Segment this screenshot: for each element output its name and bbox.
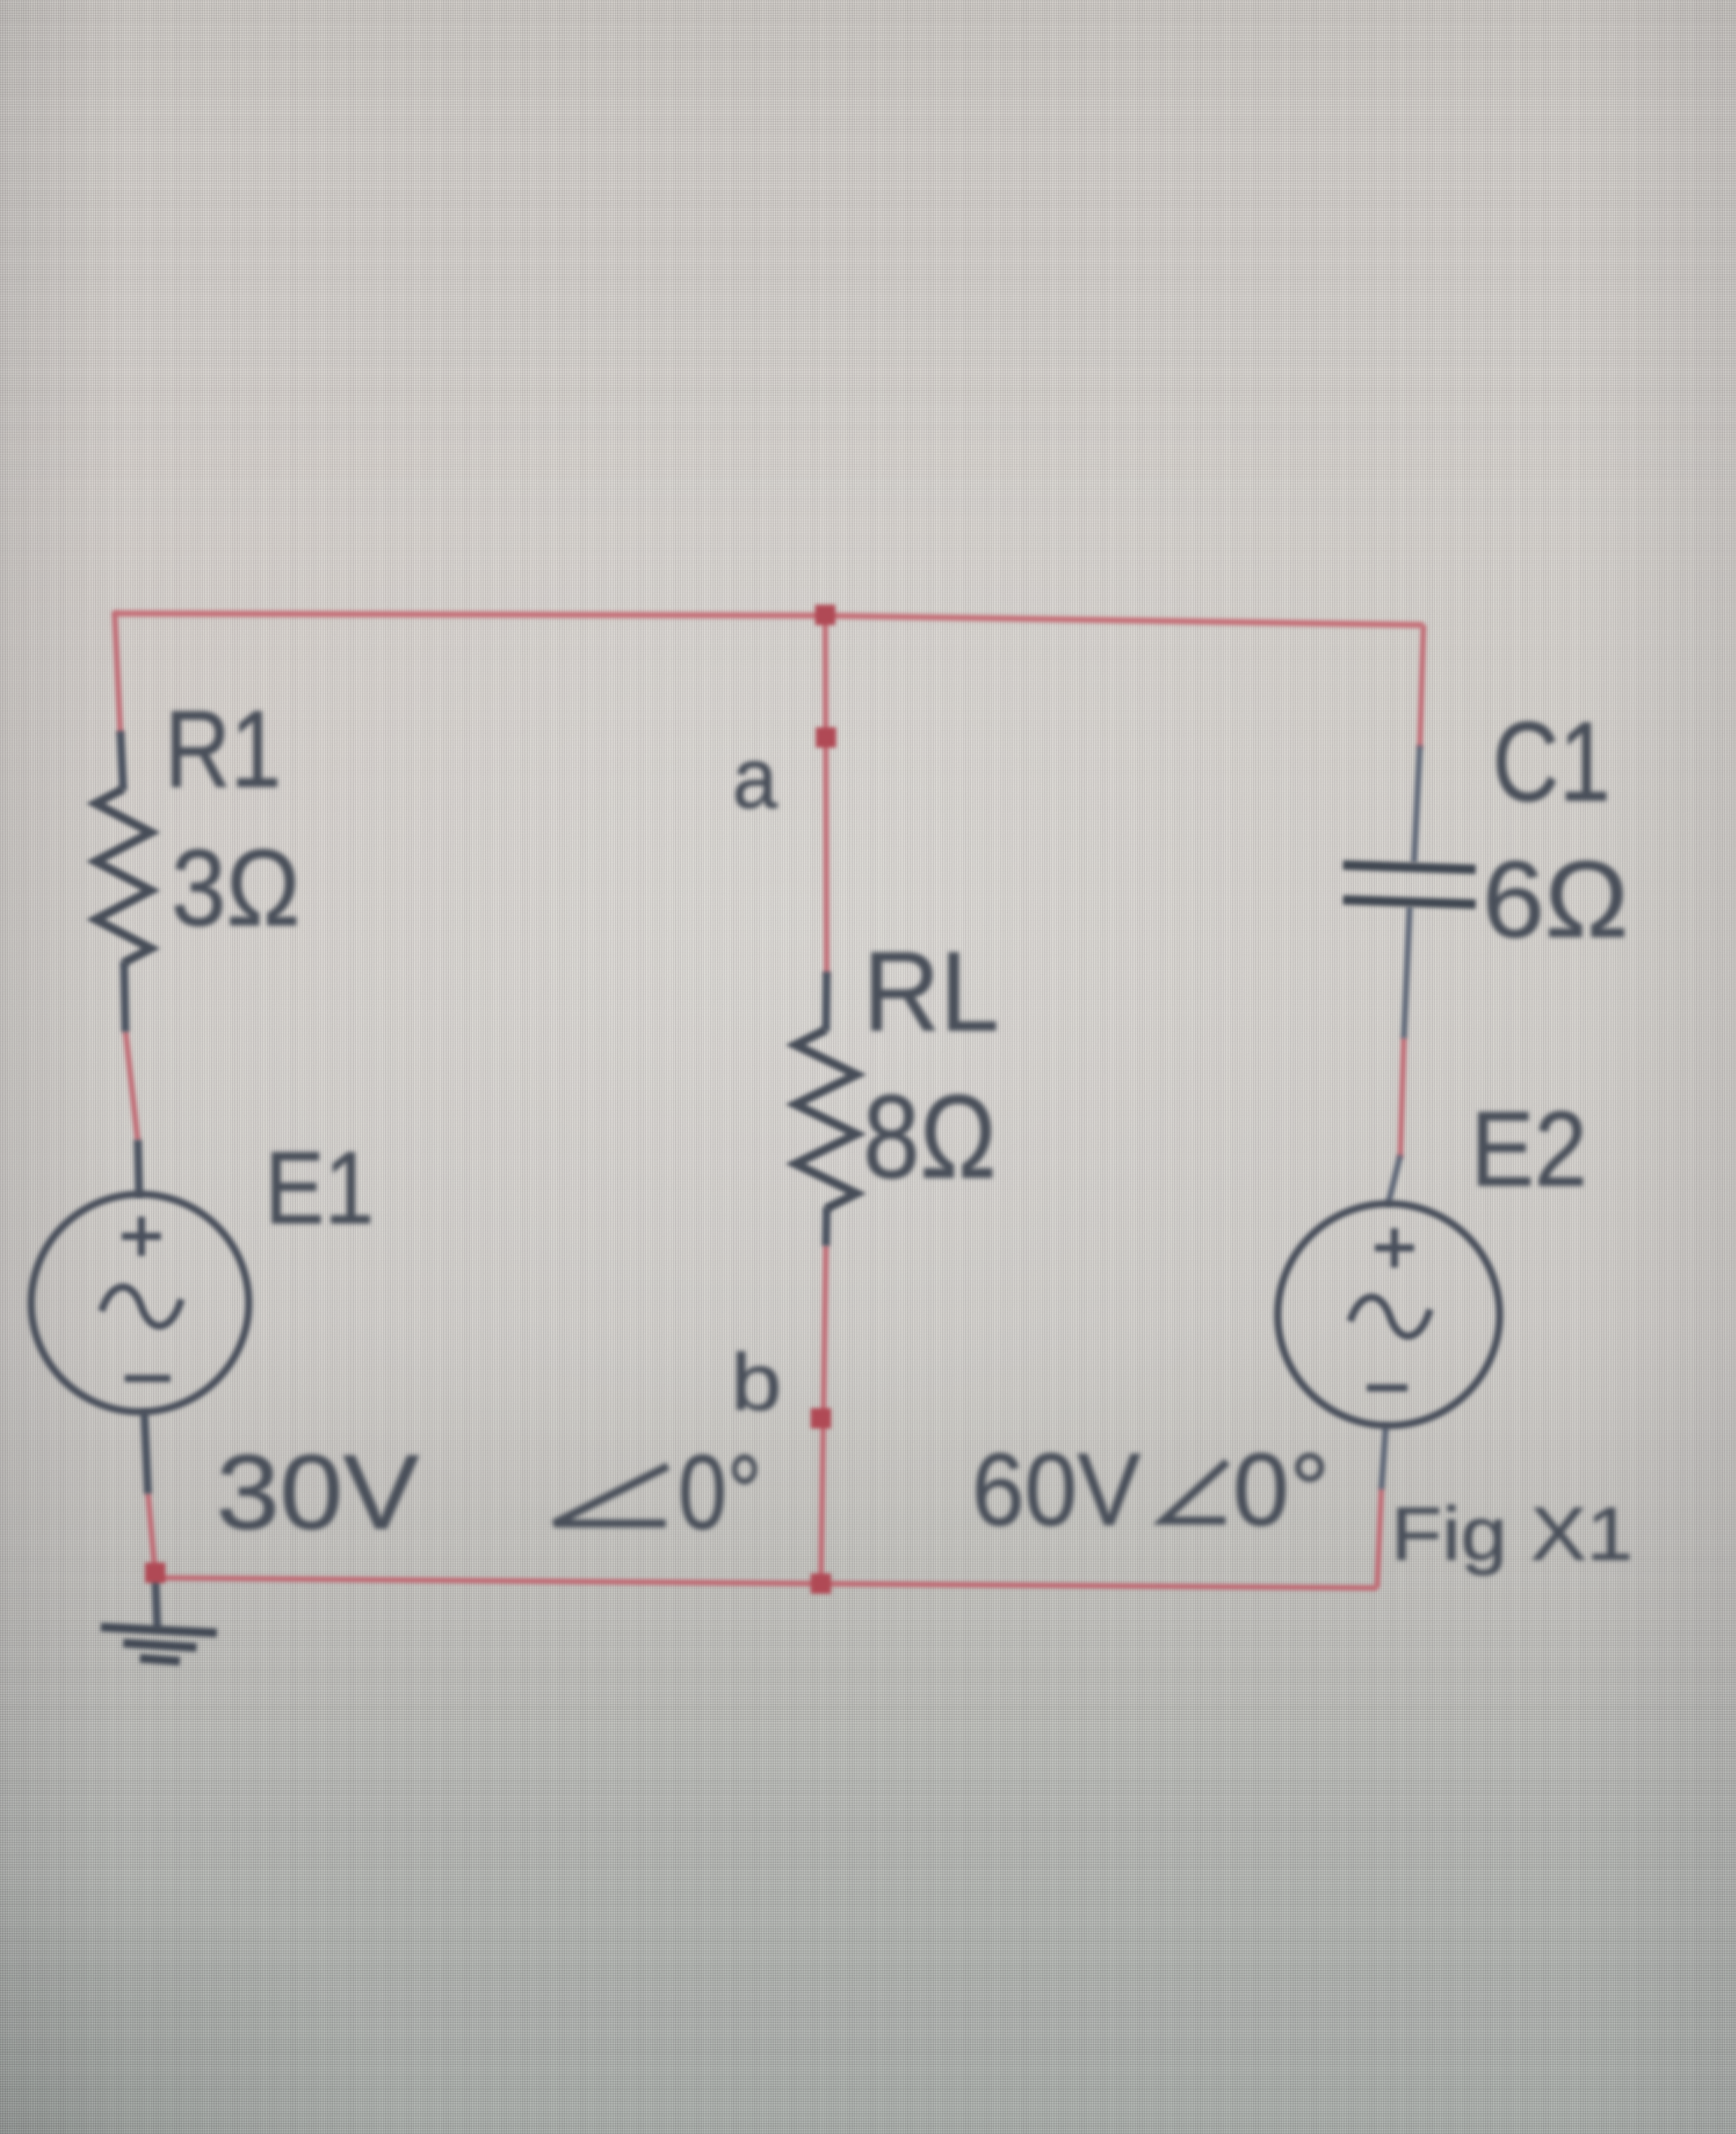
wire E1 to bottom-left junction [148, 1492, 155, 1575]
resistor R1 [96, 789, 151, 963]
label 30V [216, 1433, 419, 1551]
junction bottom-left [145, 1563, 165, 1583]
label 0 deg left [678, 1433, 762, 1551]
source E1 circle [31, 1194, 249, 1412]
source E1 plus [122, 1217, 161, 1256]
wire bottom horizontal net [155, 1578, 1377, 1588]
capacitor C1 plates [1343, 865, 1476, 904]
label C1 [1492, 699, 1611, 825]
svg-text:3Ω: 3Ω [171, 827, 300, 948]
svg-text:E2: E2 [1471, 1090, 1587, 1209]
lead RL bottom [826, 1207, 827, 1246]
svg-text:0°: 0° [678, 1433, 762, 1551]
svg-text:a: a [732, 730, 778, 827]
label E2 [1471, 1090, 1587, 1209]
lead ground stem [155, 1573, 157, 1629]
junction bottom-middle [811, 1573, 831, 1594]
wire left branch top (corner to R1) [115, 611, 120, 734]
svg-text:60V: 60V [972, 1432, 1141, 1547]
junction top-middle [815, 605, 835, 625]
label a [732, 730, 778, 827]
wire top horizontal net [115, 613, 1423, 625]
svg-text:E1: E1 [265, 1130, 374, 1246]
label angle symbol left [554, 1466, 668, 1523]
wire middle branch top (node a) [825, 616, 827, 975]
wire segment C1 to E2 red part [1400, 1037, 1404, 1158]
lead E1 top [138, 1140, 139, 1196]
lead C1 bottom [1404, 906, 1410, 1038]
wire right branch top (corner to C1) [1420, 625, 1423, 748]
lead E1 bottom [144, 1411, 148, 1494]
wire R1 to E1 [125, 1030, 138, 1141]
label 0 deg right [1233, 1432, 1330, 1547]
svg-text:30V: 30V [216, 1433, 419, 1551]
wire bottom-right corner up to E2 [1377, 1488, 1381, 1588]
lead E2 bottom [1381, 1426, 1386, 1489]
svg-text:6Ω: 6Ω [1482, 838, 1629, 960]
svg-text:Fig X1: Fig X1 [1391, 1492, 1633, 1576]
svg-text:b: b [731, 1338, 782, 1427]
svg-text:C1: C1 [1492, 699, 1611, 825]
node b junction [811, 1408, 831, 1428]
svg-text:R1: R1 [165, 687, 281, 810]
source E1 minus [125, 1375, 170, 1382]
label E1 [265, 1130, 374, 1246]
lead RL top [826, 972, 827, 1031]
source E2 circle [1278, 1204, 1500, 1426]
resistor RL [795, 1030, 856, 1209]
label 8 ohm [863, 1070, 996, 1203]
lead R1 top [120, 731, 123, 790]
wire middle branch bottom (node b) [821, 1244, 826, 1584]
node a junction [816, 727, 836, 748]
source E2 minus [1367, 1384, 1408, 1391]
ground [101, 1627, 217, 1661]
label 3 ohm [171, 827, 300, 948]
source E2 sine [1350, 1297, 1430, 1336]
svg-text:8Ω: 8Ω [863, 1070, 996, 1203]
label RL [863, 929, 999, 1055]
svg-text:0°: 0° [1233, 1432, 1330, 1547]
lead C1 top [1414, 745, 1420, 863]
label 60V [972, 1432, 1141, 1547]
source E2 plus [1375, 1228, 1414, 1267]
svg-text:RL: RL [863, 929, 999, 1055]
label Fig X1 [1391, 1492, 1633, 1576]
label b [731, 1338, 782, 1427]
lead R1 bottom [124, 961, 125, 1032]
lead E2 top [1388, 1155, 1400, 1205]
label angle symbol right [1163, 1462, 1227, 1521]
label R1 [165, 687, 281, 810]
source E1 sine [102, 1287, 181, 1326]
label 6 ohm [1482, 838, 1629, 960]
